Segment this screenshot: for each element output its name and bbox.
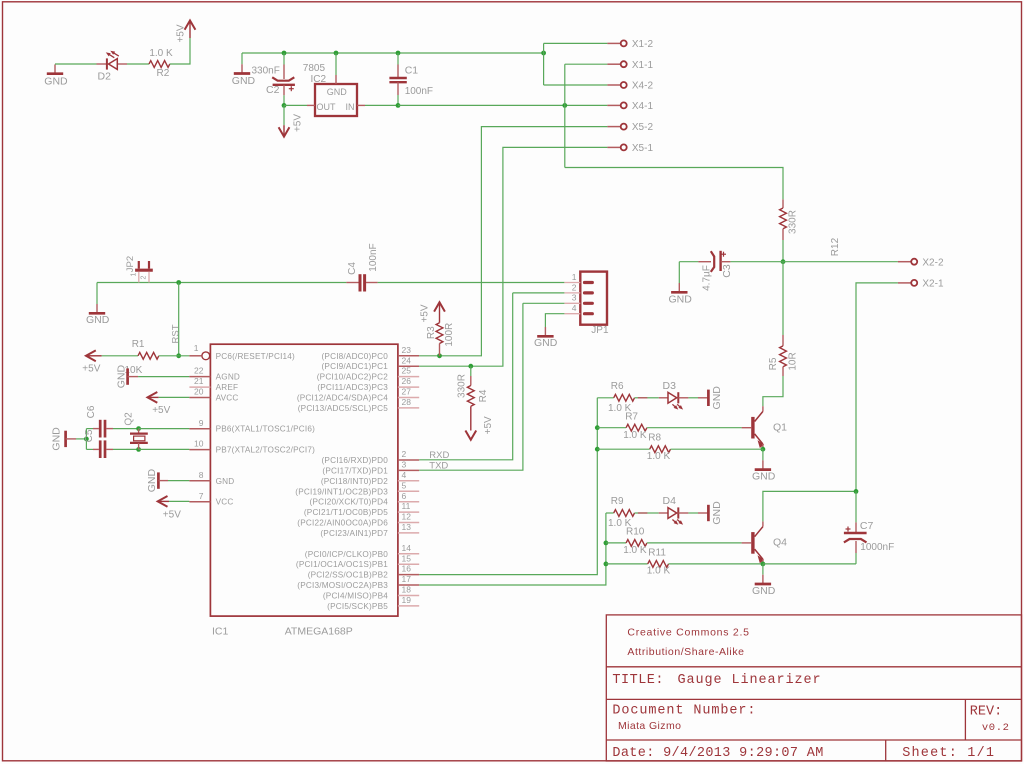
junction: [334, 51, 339, 56]
wire to X1-2: [544, 42, 608, 44]
ground (JP1 pin4): [545, 314, 564, 327]
pin 6 (PCI20/XCK/T0)PD4: [398, 501, 419, 503]
wire: [635, 512, 648, 514]
svg-text:D3: D3: [663, 380, 677, 392]
ground (C3): [678, 262, 680, 283]
pin OUT of IC2: [307, 104, 315, 106]
capacitor C7 1000nF: [855, 491, 857, 522]
pin 14 (PCI0/ICP/CLKO)PB0: [398, 553, 419, 555]
wire: [365, 104, 398, 106]
svg-text:RXD: RXD: [429, 450, 449, 461]
resistor R2 1.0K: [149, 61, 170, 68]
svg-text:PB6(XTAL1/TOSC1/PCI6): PB6(XTAL1/TOSC1/PCI6): [216, 425, 316, 434]
svg-text:+5V: +5V: [82, 363, 100, 374]
svg-text:15: 15: [402, 553, 412, 563]
wire RST vertical: [178, 283, 180, 356]
svg-text:9: 9: [199, 418, 204, 428]
svg-text:(PCI10/ADC2)PC2: (PCI10/ADC2)PC2: [317, 373, 388, 382]
svg-text:R4: R4: [478, 389, 489, 402]
capacitor C1 100nF: [397, 53, 399, 65]
junction: [176, 353, 181, 358]
svg-text:GND: GND: [752, 470, 776, 482]
svg-text:1: 1: [194, 343, 199, 353]
svg-text:OUT: OUT: [317, 102, 337, 112]
svg-text:330R: 330R: [788, 210, 799, 234]
svg-text:Document Number:: Document Number:: [612, 703, 756, 718]
+5V supply: [189, 21, 191, 39]
svg-text:v0.2: v0.2: [982, 722, 1010, 734]
svg-text:100nF: 100nF: [405, 86, 433, 97]
resistor 330R (R12 net): [782, 199, 784, 208]
connector pin X4-1: [607, 104, 620, 106]
svg-text:C1: C1: [405, 64, 419, 76]
wire: [378, 282, 565, 284]
pin 11 (PCI21/T1/OC0B)PD5: [398, 511, 419, 513]
jumper JP2: [135, 269, 153, 272]
ground (AGND pin 22): [126, 368, 129, 384]
svg-text:Attribution/Share-Alike: Attribution/Share-Alike: [627, 646, 744, 658]
pin 7 VCC: [189, 501, 210, 503]
wire base of Q1: [647, 427, 741, 429]
ground (Q4 emitter): [762, 564, 764, 575]
svg-text:R6: R6: [611, 381, 624, 392]
svg-text:4: 4: [402, 470, 407, 480]
svg-text:1.0 K: 1.0 K: [623, 430, 647, 441]
svg-text:C2: C2: [266, 84, 280, 96]
svg-text:ATMEGA168P: ATMEGA168P: [285, 626, 353, 638]
pin 9 PB6(XTAL1/TOSC1/PCI6): [189, 428, 210, 430]
ground (D3): [688, 397, 698, 399]
svg-text:GND: GND: [327, 87, 348, 97]
wire: [606, 512, 614, 514]
wire: [763, 376, 783, 406]
pin 15 (PCI1/OC1A/OC1S)PB1: [398, 563, 419, 565]
svg-text:X2-1: X2-1: [922, 279, 944, 290]
svg-text:JP1: JP1: [591, 325, 609, 336]
junction: [396, 103, 401, 108]
svg-text:RST: RST: [170, 324, 181, 343]
svg-text:2: 2: [402, 449, 407, 459]
pin 12 (PCI22/AIN0OC0A)PD6: [398, 522, 419, 524]
LED D3: [638, 397, 648, 399]
junction: [604, 541, 609, 546]
svg-text:(PCI18/INT0)PD2: (PCI18/INT0)PD2: [321, 477, 388, 486]
+5V supply (down): [283, 125, 285, 136]
svg-text:IN: IN: [346, 102, 355, 112]
svg-text:100nF: 100nF: [368, 243, 379, 271]
junction: [604, 562, 609, 567]
wire rail to X2-2: [730, 261, 898, 263]
LED D2: [97, 63, 107, 65]
svg-text:PC6(/RESET/PCI14): PC6(/RESET/PCI14): [216, 352, 295, 361]
svg-text:2: 2: [141, 275, 148, 279]
capacitor C6: [86, 428, 93, 430]
svg-text:R10: R10: [626, 527, 645, 538]
svg-text:R9: R9: [611, 496, 624, 507]
svg-text:330R: 330R: [457, 374, 468, 398]
svg-text:X5-2: X5-2: [632, 122, 654, 133]
svg-text:3: 3: [572, 293, 577, 303]
svg-text:PB7(XTAL2/TOSC2/PCI7): PB7(XTAL2/TOSC2/PCI7): [216, 446, 316, 455]
svg-text:1: 1: [130, 272, 137, 276]
wire X2-1 down right side: [856, 283, 898, 492]
pin 19 (PCI5/SCK)PB5: [398, 605, 419, 607]
svg-text:Creative Commons 2.5: Creative Commons 2.5: [627, 626, 749, 638]
svg-text:R7: R7: [625, 411, 638, 422]
wire: [597, 397, 613, 399]
title block outline: [606, 615, 1021, 761]
title block lines: [606, 666, 1021, 668]
wire: [635, 397, 648, 399]
svg-text:AVCC: AVCC: [216, 394, 239, 403]
svg-text:+5V: +5V: [152, 405, 170, 416]
svg-text:16: 16: [402, 564, 412, 574]
wire: [170, 38, 190, 64]
svg-text:GND: GND: [711, 501, 723, 525]
svg-text:19: 19: [402, 595, 412, 605]
pin 21 AREF: [189, 386, 210, 388]
svg-text:Miata Gizmo: Miata Gizmo: [618, 720, 681, 732]
wire: [127, 63, 149, 65]
resistor R5 10R: [782, 335, 784, 346]
svg-text:3: 3: [402, 460, 407, 470]
wire to X4-2: [544, 84, 608, 86]
junction: [396, 51, 401, 56]
connector pin X4-2: [607, 84, 620, 86]
svg-text:(PCI22/AIN0OC0A)PD6: (PCI22/AIN0OC0A)PD6: [297, 519, 388, 528]
svg-text:X1-2: X1-2: [632, 39, 654, 50]
svg-text:X2-2: X2-2: [922, 257, 944, 268]
junction: [468, 364, 473, 369]
wire JP1 pin3 to TXD: [523, 302, 565, 304]
svg-text:GND: GND: [146, 469, 158, 493]
resistor R7 1.0K: [597, 427, 626, 429]
pin GND of IC2: [335, 53, 337, 75]
wire RST rail: [97, 282, 346, 284]
svg-text:+5V: +5V: [176, 24, 187, 42]
wire X5-2 to pin 23 net: [440, 127, 608, 356]
pin 24 (PCI9/ADC1)PC1: [398, 365, 419, 367]
svg-text:28: 28: [402, 397, 412, 407]
junction: [282, 103, 287, 108]
svg-text:26: 26: [402, 376, 412, 386]
svg-text:(PCI16/RXD)PD0: (PCI16/RXD)PD0: [322, 456, 389, 465]
wire: [85, 429, 87, 450]
wire: [782, 262, 784, 335]
svg-text:C5: C5: [84, 429, 95, 442]
svg-text:GND: GND: [711, 386, 723, 410]
svg-text:GND: GND: [115, 365, 127, 389]
svg-text:GND: GND: [752, 585, 776, 597]
wire: [102, 355, 138, 357]
svg-text:20: 20: [194, 387, 204, 397]
svg-text:(PCI13/ADC5/SCL)PC5: (PCI13/ADC5/SCL)PC5: [298, 404, 388, 413]
resistor R1 10K: [138, 352, 159, 359]
wire TXD net: [419, 303, 523, 470]
svg-text:12: 12: [402, 512, 412, 522]
ground (crystal): [64, 431, 67, 447]
svg-text:R12: R12: [830, 237, 841, 256]
svg-text:R2: R2: [157, 68, 170, 79]
svg-text:(PCI3/MOSI/OC2A)PB3: (PCI3/MOSI/OC2A)PB3: [297, 581, 388, 590]
svg-text:C3: C3: [721, 264, 733, 278]
svg-text:X4-1: X4-1: [632, 101, 654, 112]
svg-text:+5V: +5V: [163, 510, 181, 521]
svg-text:(PCI1/OC1A/OC1S)PB1: (PCI1/OC1A/OC1S)PB1: [296, 560, 388, 569]
svg-text:(PCI8/ADC0)PC0: (PCI8/ADC0)PC0: [322, 352, 389, 361]
pin 10 PB7(XTAL2/TOSC2/PCI7): [189, 449, 210, 451]
resistor R10 1.0K: [606, 542, 626, 544]
svg-text:21: 21: [194, 376, 204, 386]
svg-text:10: 10: [194, 439, 204, 449]
junction: [854, 489, 859, 494]
svg-text:17: 17: [402, 574, 412, 584]
wire rail to X4-1: [398, 104, 607, 106]
junction: [595, 425, 600, 430]
wire pin 23 to junction: [419, 355, 439, 357]
svg-text:(PCI20/XCK/T0)PD4: (PCI20/XCK/T0)PD4: [310, 498, 389, 507]
junction: [541, 51, 546, 56]
connector JP1: [580, 272, 607, 325]
svg-text:18: 18: [402, 585, 412, 595]
wire X1-1 branch: [565, 63, 608, 65]
ground (power input): [241, 53, 243, 64]
ground (JP2 branch): [96, 283, 98, 305]
svg-text:(PCI23/AIN1)PD7: (PCI23/AIN1)PD7: [320, 529, 388, 538]
svg-text:24: 24: [402, 355, 412, 365]
svg-text:4.7µF: 4.7µF: [702, 265, 713, 291]
svg-text:+5V: +5V: [483, 416, 494, 434]
svg-text:AREF: AREF: [216, 383, 239, 392]
junction: [562, 103, 567, 108]
ground (GND pin 8): [157, 472, 160, 488]
junction: [437, 353, 442, 358]
junction: [595, 447, 600, 452]
wire: [284, 104, 307, 106]
svg-text:100R: 100R: [444, 323, 455, 347]
connector pin X5-2: [607, 126, 620, 128]
wire: [55, 63, 97, 65]
svg-text:(PCI0/ICP/CLKO)PB0: (PCI0/ICP/CLKO)PB0: [305, 550, 388, 559]
ground (Q1 emitter): [762, 449, 764, 460]
svg-text:(PCI12/ADC4/SDA)PC4: (PCI12/ADC4/SDA)PC4: [297, 394, 388, 403]
svg-text:GND: GND: [44, 76, 68, 88]
svg-text:10R: 10R: [788, 352, 799, 370]
svg-text:GND: GND: [669, 294, 693, 306]
wire pin 24 to junction: [419, 365, 471, 367]
svg-text:(PCI11/ADC3)PC3: (PCI11/ADC3)PC3: [317, 383, 388, 392]
svg-text:C6: C6: [86, 405, 97, 418]
wire: [139, 428, 190, 430]
pin 4 (PCI18/INT0)PD2: [398, 480, 419, 482]
svg-text:R11: R11: [648, 547, 666, 558]
resistor R11 1.0K: [606, 563, 648, 565]
svg-text:27: 27: [402, 387, 412, 397]
svg-text:6: 6: [402, 491, 407, 501]
ground (D4): [688, 512, 698, 514]
svg-text:(PCI2/SS/OC1B)PB2: (PCI2/SS/OC1B)PB2: [308, 571, 389, 580]
svg-text:(PCI17/TXD)PD1: (PCI17/TXD)PD1: [322, 466, 388, 475]
junction: [84, 437, 89, 442]
IC U1 ATMEGA168P body: [210, 344, 398, 616]
wire pin16 net vertical: [419, 398, 597, 575]
svg-text:GND: GND: [86, 314, 110, 326]
junction: [781, 259, 786, 264]
+5V supply (left, R1): [86, 350, 96, 361]
svg-text:(PCI21/T1/OC0B)PD5: (PCI21/T1/OC0B)PD5: [304, 508, 388, 517]
svg-text:D2: D2: [98, 71, 112, 83]
junction: [761, 562, 766, 567]
capacitor C4 100nF: [345, 282, 347, 284]
svg-text:R8: R8: [648, 433, 661, 444]
connector pin X5-1: [607, 146, 620, 148]
svg-text:TXD: TXD: [429, 461, 448, 472]
connector pin X1-1: [607, 63, 620, 65]
wire: [564, 64, 566, 167]
svg-text:C4: C4: [347, 262, 358, 275]
svg-text:13: 13: [402, 522, 412, 532]
wire JP1 pin2 to RXD: [513, 292, 565, 294]
svg-text:C7: C7: [860, 520, 874, 532]
pin 17 (PCI3/MOSI/OC2A)PB3: [398, 584, 419, 586]
wire pin17 net vertical: [419, 513, 606, 585]
pin 2 (PCI16/RXD)PD0: [398, 459, 419, 461]
pin 22 AGND: [189, 376, 210, 378]
svg-text:Q4: Q4: [773, 537, 787, 549]
svg-text:14: 14: [402, 543, 412, 553]
svg-text:Date: 9/4/2013 9:29:07 AM: Date: 9/4/2013 9:29:07 AM: [612, 746, 823, 761]
pin 26 (PCI11/ADC3)PC3: [398, 386, 419, 388]
svg-text:1: 1: [572, 272, 577, 282]
wire: [782, 240, 784, 262]
svg-text:8: 8: [199, 470, 204, 480]
resistor R8 1.0K: [597, 448, 649, 450]
wire: [139, 448, 190, 450]
svg-text:22: 22: [194, 366, 204, 376]
svg-text:2: 2: [572, 282, 577, 292]
svg-text:1.0 K: 1.0 K: [149, 48, 173, 59]
connector pin X1-2: [607, 42, 620, 44]
svg-text:1.0 K: 1.0 K: [647, 451, 671, 462]
svg-text:TITLE:: TITLE:: [612, 673, 664, 688]
wire Q4 collector: [763, 491, 856, 521]
crystal Q2: [138, 429, 140, 434]
svg-text:+5V: +5V: [292, 114, 303, 132]
wire base of Q4: [647, 542, 741, 544]
svg-text:+5V: +5V: [420, 304, 431, 322]
+5V supply (VCC pin 7): [158, 496, 168, 507]
wire: [283, 105, 285, 125]
svg-text:23: 23: [402, 345, 412, 355]
connector pin X2-2: [898, 261, 911, 263]
svg-text:D4: D4: [663, 495, 677, 507]
junction: [136, 426, 141, 431]
wire: [543, 43, 545, 85]
voltage regulator IC2 7805: [315, 84, 357, 116]
svg-text:JP2: JP2: [125, 256, 136, 272]
ground (D2 branch): [54, 64, 56, 73]
svg-text:AGND: AGND: [216, 373, 240, 382]
junction: [761, 447, 766, 452]
wire: [159, 355, 190, 357]
svg-text:1.0 K: 1.0 K: [623, 545, 647, 556]
svg-text:(PCI19/INT1/OC2B)PD3: (PCI19/INT1/OC2B)PD3: [295, 487, 388, 496]
pin 13 (PCI23/AIN1)PD7: [398, 532, 419, 534]
+5V supply (AVCC pin 20): [148, 392, 158, 403]
capacitor C3 4.7uF: [679, 261, 698, 263]
pin 25 (PCI10/ADC2)PC2: [398, 376, 419, 378]
svg-text:IC1: IC1: [212, 626, 229, 638]
connector pin X2-1: [898, 282, 911, 284]
svg-text:5: 5: [402, 480, 407, 490]
svg-text:X5-1: X5-1: [632, 143, 654, 154]
svg-text:Q2: Q2: [124, 412, 135, 426]
wire +12V rail: [242, 52, 544, 54]
svg-text:X1-1: X1-1: [632, 60, 654, 71]
svg-text:4: 4: [572, 303, 577, 313]
pin 20 AVCC: [189, 397, 210, 399]
resistor R4 330R with +5V (down): [470, 366, 472, 376]
svg-text:IC2: IC2: [311, 74, 327, 85]
svg-text:R3: R3: [426, 326, 437, 339]
svg-text:X4-2: X4-2: [632, 81, 654, 92]
pin 3 (PCI17/TXD)PD1: [398, 469, 419, 471]
resistor R3 100R with +5V: [439, 344, 441, 356]
pin 16 (PCI2/SS/OC1B)PB2: [398, 574, 419, 576]
capacitor C2 330nF: [283, 53, 285, 65]
svg-text:(PCI9/ADC1)PC1: (PCI9/ADC1)PC1: [322, 362, 389, 371]
svg-text:Gauge Linearizer: Gauge Linearizer: [678, 673, 822, 688]
svg-text:7: 7: [199, 491, 204, 501]
svg-text:330nF: 330nF: [252, 66, 280, 77]
wire emitter rail to C7: [763, 563, 856, 565]
pin 28 (PCI13/ADC5/SCL)PC5: [398, 407, 419, 409]
resistor R6 1.0K: [614, 394, 635, 401]
svg-text:(PCI4/MISO)PB4: (PCI4/MISO)PB4: [323, 592, 388, 601]
resistor R9 1.0K: [614, 510, 635, 517]
svg-text:REV:: REV:: [970, 705, 1002, 720]
svg-text:25: 25: [402, 366, 412, 376]
svg-text:Sheet: 1/1: Sheet: 1/1: [902, 746, 995, 761]
pin IN of IC2: [357, 104, 365, 106]
svg-text:Q1: Q1: [773, 422, 787, 434]
pin 5 (PCI19/INT1/OC2B)PD3: [398, 490, 419, 492]
svg-text:R1: R1: [132, 339, 145, 350]
svg-text:R5: R5: [768, 357, 779, 370]
wire X5-1 to pin 24 net: [471, 147, 608, 366]
svg-text:7805: 7805: [303, 63, 326, 74]
junction: [282, 51, 287, 56]
pin 27 (PCI12/ADC4/SDA)PC4: [398, 397, 419, 399]
svg-text:VCC: VCC: [216, 498, 234, 507]
svg-text:GND: GND: [534, 337, 558, 349]
pin 18 (PCI4/MISO)PB4: [398, 595, 419, 597]
pin 1 PC6(/RESET/PCI14): [189, 355, 201, 357]
svg-text:GND: GND: [232, 75, 256, 87]
svg-text:GND: GND: [216, 477, 235, 486]
LED D4: [638, 512, 648, 514]
wire RXD net: [419, 293, 513, 460]
junction: [136, 447, 141, 452]
junction: [176, 280, 181, 285]
transistor Q4: [751, 532, 754, 554]
transistor Q1: [751, 417, 754, 439]
svg-text:11: 11: [402, 501, 411, 511]
wire to 330R resistor: [565, 168, 783, 200]
pin 8 GND: [189, 480, 210, 482]
pin 23 (PCI8/ADC0)PC0: [398, 355, 419, 357]
capacitor C5: [86, 448, 93, 450]
